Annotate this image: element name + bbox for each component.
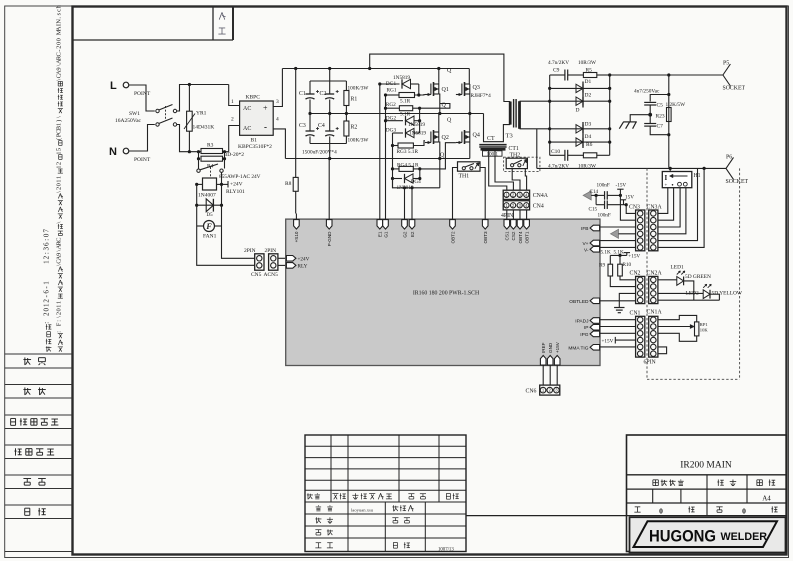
svg-text:CN6: CN6 bbox=[526, 388, 537, 394]
svg-text:15V: 15V bbox=[625, 195, 634, 201]
wire RG4 to Q4 gate bbox=[420, 143, 456, 169]
svg-text:CN2A: CN2A bbox=[647, 271, 663, 277]
svg-text:D: D bbox=[576, 108, 580, 114]
svg-text:IR160 180 200 PWR-1.SCH: IR160 180 200 PWR-1.SCH bbox=[413, 291, 480, 297]
connector CN4 bbox=[503, 201, 529, 210]
svg-text:CN4: CN4 bbox=[533, 204, 544, 210]
diode DG4 bbox=[393, 178, 403, 180]
sheet block IR160 180 200 PWR-1.SCH bbox=[286, 219, 600, 365]
revision row 标准化 bbox=[392, 505, 394, 511]
wire primary feed top bbox=[370, 54, 511, 101]
svg-text:5D GREEN: 5D GREEN bbox=[685, 274, 711, 280]
connector CN4A bbox=[503, 190, 529, 199]
svg-text:+15V: +15V bbox=[602, 338, 614, 344]
socket P6 bbox=[726, 157, 734, 168]
svg-text:T3: T3 bbox=[506, 133, 513, 140]
svg-text:\: \ bbox=[55, 191, 62, 193]
wire MMA TIG to CN1 pin5 bbox=[600, 346, 636, 348]
svg-text::: : bbox=[43, 252, 51, 254]
wire E2 drop bbox=[411, 188, 413, 214]
wire P-GND drop bbox=[328, 159, 330, 214]
svg-text:KBPC: KBPC bbox=[246, 95, 261, 101]
svg-text:OBT4: OBT4 bbox=[518, 231, 523, 243]
wire LED return CN2A pin4 bbox=[658, 299, 719, 301]
left strip label 签字 bbox=[23, 478, 31, 480]
wire FAN to CN5 bbox=[197, 226, 255, 265]
svg-text:LED1: LED1 bbox=[671, 265, 684, 271]
svg-text:RG3 5.1R: RG3 5.1R bbox=[397, 149, 419, 155]
svg-text:2: 2 bbox=[43, 299, 51, 303]
svg-text:RLY101: RLY101 bbox=[226, 189, 245, 195]
svg-text:+15V: +15V bbox=[555, 341, 560, 353]
revision row 审定 bbox=[392, 517, 398, 519]
svg-text:FAN1: FAN1 bbox=[203, 234, 217, 240]
svg-text:2: 2 bbox=[43, 312, 51, 316]
title cell 图幅 bbox=[757, 479, 762, 481]
svg-text:CN1: CN1 bbox=[630, 310, 641, 316]
svg-text:MMA TIG: MMA TIG bbox=[568, 345, 588, 351]
svg-text:+: + bbox=[665, 184, 668, 189]
svg-text:D5: D5 bbox=[207, 213, 214, 218]
logo box bbox=[630, 517, 786, 552]
svg-text:100nF: 100nF bbox=[598, 213, 611, 219]
resistor R9 bbox=[609, 255, 611, 264]
revision header 更改文件号 bbox=[354, 493, 356, 499]
svg-text:AC: AC bbox=[243, 126, 251, 132]
capacitor C4 bbox=[329, 114, 331, 132]
svg-text:Q: Q bbox=[447, 68, 452, 74]
svg-text:G2: G2 bbox=[402, 231, 407, 238]
svg-text:1: 1 bbox=[43, 260, 51, 264]
svg-text:ACN5: ACN5 bbox=[264, 272, 279, 278]
revision upper column lines bbox=[330, 435, 332, 502]
svg-text:9: 9 bbox=[55, 67, 62, 70]
svg-text:RJHF7*4: RJHF7*4 bbox=[471, 93, 492, 99]
svg-text:C: C bbox=[55, 52, 62, 56]
transistor Q4 bbox=[469, 114, 471, 133]
svg-text:D3: D3 bbox=[585, 122, 592, 128]
svg-text:C10: C10 bbox=[551, 149, 560, 155]
svg-text:1N5819: 1N5819 bbox=[408, 122, 425, 128]
svg-text:OBT1: OBT1 bbox=[524, 231, 529, 243]
svg-text:SW1: SW1 bbox=[129, 111, 140, 117]
svg-text:G1: G1 bbox=[383, 231, 388, 238]
svg-text:RP1: RP1 bbox=[700, 322, 709, 327]
svg-text:4n7/250Vac: 4n7/250Vac bbox=[634, 89, 660, 95]
svg-text:9: 9 bbox=[55, 253, 62, 256]
title block outer bbox=[627, 435, 787, 552]
svg-text:I: I bbox=[665, 174, 668, 182]
svg-text:Q: Q bbox=[440, 153, 445, 159]
connector CN6 bbox=[542, 365, 544, 385]
svg-text:6PIN: 6PIN bbox=[644, 360, 657, 366]
svg-text:4: 4 bbox=[276, 117, 279, 123]
svg-text:1N5819: 1N5819 bbox=[409, 131, 426, 137]
svg-text:6: 6 bbox=[43, 242, 51, 246]
capacitor C2 bbox=[329, 81, 331, 94]
varistor YR1 bbox=[188, 83, 191, 86]
svg-text:IFB: IFB bbox=[581, 226, 588, 232]
wire SW1 pole1 to top rail bbox=[177, 85, 229, 112]
revision lower row lines bbox=[305, 513, 466, 515]
svg-text:2PIN: 2PIN bbox=[265, 248, 277, 254]
svg-text:R2: R2 bbox=[351, 125, 358, 131]
svg-text:10K: 10K bbox=[700, 328, 709, 333]
wire IPG to CN1 pin3 bbox=[600, 332, 636, 334]
svg-text:R8: R8 bbox=[285, 181, 292, 187]
svg-text:TH2: TH2 bbox=[510, 152, 521, 158]
svg-text:Q1: Q1 bbox=[442, 87, 449, 93]
wire 15V to CN3 pin2 bbox=[619, 195, 621, 199]
meter H1 bbox=[662, 172, 692, 188]
wire V+ to CN3 pin5 bbox=[600, 240, 636, 242]
svg-text:-15V: -15V bbox=[616, 182, 627, 188]
svg-text:C14: C14 bbox=[590, 189, 599, 195]
svg-text:6: 6 bbox=[43, 290, 51, 294]
wire TH2 to CN4A pin4 bbox=[525, 169, 526, 190]
svg-text:P5: P5 bbox=[723, 61, 729, 67]
relay contact RLY101 bbox=[197, 157, 200, 160]
svg-text:1500uF/200V*4: 1500uF/200V*4 bbox=[302, 150, 337, 156]
socket P5 bbox=[723, 64, 731, 75]
title cell 版本 bbox=[717, 479, 719, 485]
wire bridge pin3 to +bus bbox=[273, 69, 282, 107]
svg-text:1007/13: 1007/13 bbox=[438, 548, 454, 553]
svg-text:CN2: CN2 bbox=[630, 271, 641, 277]
resistor R4 bbox=[197, 150, 200, 153]
title cell 共0张 bbox=[635, 506, 641, 508]
bottom middle divider bbox=[466, 515, 627, 517]
svg-text:R10: R10 bbox=[623, 262, 632, 268]
svg-text::: : bbox=[55, 320, 62, 322]
svg-text:D2: D2 bbox=[585, 93, 592, 99]
wire IP to CN1 pin2 bbox=[600, 326, 636, 328]
svg-text:P-GND: P-GND bbox=[327, 231, 332, 246]
block top ports bbox=[295, 214, 297, 220]
wire gate bus E1 bbox=[379, 84, 381, 214]
wire cap bottom rail bbox=[310, 143, 346, 145]
svg-text:\: \ bbox=[55, 222, 62, 224]
wires CN3A to H1 bbox=[658, 188, 668, 214]
svg-text:IPADJ: IPADJ bbox=[575, 319, 589, 325]
svg-text:C2: C2 bbox=[320, 91, 327, 97]
svg-text:100K/3W: 100K/3W bbox=[348, 138, 369, 144]
svg-text:1.2K/5W: 1.2K/5W bbox=[666, 102, 686, 108]
svg-text:C7: C7 bbox=[657, 123, 664, 129]
resistor R8 bbox=[295, 69, 297, 178]
svg-text:L: L bbox=[110, 80, 117, 92]
flag 15V upper bbox=[619, 189, 621, 195]
svg-text:(: ( bbox=[55, 138, 62, 140]
svg-text:R6: R6 bbox=[586, 142, 593, 148]
svg-text:F: F bbox=[205, 222, 212, 231]
svg-text:V-: V- bbox=[584, 247, 589, 253]
wire SW1 pole2 to bottom rail bbox=[177, 125, 196, 152]
svg-text:laoyuan.xsu: laoyuan.xsu bbox=[351, 508, 374, 513]
svg-text:SOCKET: SOCKET bbox=[726, 179, 749, 185]
capacitor C15 bbox=[595, 195, 597, 204]
revision row 设计 bbox=[317, 505, 319, 506]
svg-text:IPG: IPG bbox=[580, 332, 589, 338]
svg-text:3: 3 bbox=[43, 246, 51, 250]
resistor R10 bbox=[619, 255, 621, 264]
svg-text:C1: C1 bbox=[299, 91, 306, 97]
transformer T3 bbox=[509, 102, 512, 125]
wire ACN5 to block bbox=[278, 257, 287, 259]
wire G2 drop bbox=[404, 188, 406, 214]
svg-text:5D YELLOW: 5D YELLOW bbox=[712, 291, 743, 297]
svg-text::: : bbox=[43, 239, 51, 241]
wire rail to H1 bbox=[669, 168, 671, 171]
wire IPADJ to CN1 pin1 bbox=[600, 319, 636, 321]
svg-text:Q2: Q2 bbox=[442, 135, 449, 141]
svg-text:14D431K: 14D431K bbox=[193, 125, 215, 131]
wire gate return bottom bbox=[393, 179, 440, 188]
svg-text:A4: A4 bbox=[762, 495, 771, 503]
wire rect left vertical bbox=[549, 75, 551, 155]
wire - output rail to P6 bbox=[537, 167, 726, 169]
svg-text:B1: B1 bbox=[251, 138, 258, 144]
svg-text:D1: D1 bbox=[585, 79, 592, 85]
resistor R1 bbox=[345, 81, 347, 91]
svg-text:Q3: Q3 bbox=[473, 85, 480, 91]
wire D1 row bbox=[550, 87, 610, 89]
svg-text:0: 0 bbox=[43, 307, 51, 311]
dashed panel box bbox=[646, 168, 648, 379]
gnd triangle to CN3 pin4 bbox=[611, 229, 619, 238]
svg-text:F: F bbox=[55, 322, 62, 326]
wires CN3A to rail bbox=[658, 168, 698, 240]
thermostat TH1 bbox=[458, 162, 481, 171]
svg-text::: : bbox=[43, 322, 51, 324]
wire R9 to CN2 pin2 bbox=[610, 276, 635, 287]
wire CT secondary to CN4A pin1 bbox=[489, 149, 507, 190]
left strip label 底图总号 bbox=[14, 448, 16, 455]
svg-text:C9: C9 bbox=[553, 68, 560, 74]
revision header 日期 bbox=[446, 492, 450, 494]
svg-text:-: - bbox=[55, 50, 62, 52]
svg-text:+15V: +15V bbox=[628, 253, 640, 259]
flag 15V lower bbox=[623, 200, 625, 205]
svg-text:POINT: POINT bbox=[134, 157, 151, 163]
wire CN1A jumper bbox=[658, 347, 667, 354]
svg-text:C5: C5 bbox=[657, 102, 664, 108]
revision header 标记 bbox=[307, 493, 309, 499]
svg-text:16A250Vac: 16A250Vac bbox=[115, 118, 142, 124]
left strip label 描校 bbox=[24, 387, 26, 395]
resistor R2 bbox=[345, 114, 347, 122]
capacitor C5 bbox=[644, 101, 656, 103]
top cell glyphs bbox=[219, 12, 222, 19]
svg-text:CN4A: CN4A bbox=[533, 193, 549, 199]
svg-text:R23: R23 bbox=[656, 113, 665, 119]
logo HUGONG WELDER bbox=[634, 521, 778, 547]
svg-text:7: 7 bbox=[43, 229, 51, 233]
svg-text:+24V: +24V bbox=[230, 182, 243, 188]
chassis ground bbox=[630, 115, 650, 122]
svg-text:TH1: TH1 bbox=[459, 174, 470, 180]
transistor Q3 bbox=[468, 69, 470, 85]
wire L to SW1 bbox=[129, 85, 155, 111]
svg-text:D4: D4 bbox=[585, 134, 592, 140]
wire D3 row bbox=[550, 128, 610, 130]
dashed box TH2 bbox=[504, 157, 540, 171]
wire gnd to CN2 pin3 bbox=[619, 293, 635, 307]
svg-text:C: C bbox=[55, 238, 62, 242]
svg-text:100nF: 100nF bbox=[597, 182, 610, 188]
svg-text:SOCKET: SOCKET bbox=[723, 86, 746, 92]
block right ports bbox=[590, 225, 600, 231]
wire Q2 source to gate return bbox=[439, 159, 441, 188]
wire gate bus G2 upper bbox=[392, 133, 394, 188]
wire TH1 to OBT3 bbox=[480, 168, 485, 214]
revision row 工艺 bbox=[316, 542, 321, 544]
resistor R3 bbox=[196, 151, 201, 153]
wire D2 row bbox=[550, 100, 610, 102]
svg-text:2: 2 bbox=[43, 255, 51, 259]
wire N to SW1 bbox=[129, 125, 155, 152]
svg-text:E2: E2 bbox=[410, 231, 415, 237]
svg-text:1: 1 bbox=[43, 303, 51, 307]
block bottom ports IREF GND +15V bbox=[540, 356, 546, 366]
svg-text:3D-20*2: 3D-20*2 bbox=[225, 152, 245, 158]
left strip row lines bbox=[5, 353, 73, 355]
svg-text:IREF: IREF bbox=[541, 342, 546, 353]
svg-text:0: 0 bbox=[742, 507, 746, 516]
wire +bus bbox=[282, 68, 469, 70]
svg-text:R9: R9 bbox=[599, 263, 605, 269]
svg-text:R1: R1 bbox=[351, 97, 358, 103]
wire T3 secondary bottom to rectifier bbox=[520, 128, 550, 130]
svg-text:1N4007: 1N4007 bbox=[198, 193, 216, 199]
svg-text:YR1: YR1 bbox=[196, 111, 207, 117]
svg-text:CS1: CS1 bbox=[505, 231, 510, 240]
svg-text:RG4 5.1R: RG4 5.1R bbox=[397, 162, 419, 168]
wire T3 secondary top to rectifier bbox=[520, 100, 550, 102]
revision row 审核 bbox=[315, 529, 321, 531]
left strip vertical text 文件名 bbox=[58, 346, 63, 348]
svg-text:RG1: RG1 bbox=[387, 88, 397, 94]
svg-text:100K/3W: 100K/3W bbox=[348, 86, 369, 92]
revision table blank row lines bbox=[305, 445, 466, 447]
resistor RG3 bbox=[393, 145, 399, 147]
svg-text:C15: C15 bbox=[589, 207, 598, 213]
fan FAN1 bbox=[196, 205, 198, 226]
block left ports +24V RLY bbox=[286, 256, 296, 262]
svg-text:R3: R3 bbox=[207, 143, 214, 149]
wire bridge pin4 to -bus bbox=[273, 129, 285, 159]
svg-text:855AWP-1AC 24V: 855AWP-1AC 24V bbox=[219, 174, 261, 180]
svg-text:N: N bbox=[109, 146, 117, 158]
wire IFB to CN3 pin3 bbox=[600, 226, 636, 228]
title block column lines bbox=[706, 475, 708, 516]
revision row 日期2 bbox=[393, 541, 397, 543]
capacitor C7 bbox=[644, 123, 656, 125]
wire R34 to bridge pin2 bbox=[229, 126, 240, 152]
svg-text:Q4: Q4 bbox=[473, 133, 480, 139]
svg-text:1: 1 bbox=[55, 123, 62, 126]
svg-text:V+: V+ bbox=[582, 241, 588, 247]
svg-text:\: \ bbox=[55, 316, 62, 318]
title cell 第0张 bbox=[716, 506, 722, 508]
wire OBTLED to CN2 pin4 bbox=[600, 300, 636, 302]
wires CN4 to block pins bbox=[506, 210, 508, 214]
wire V- to CN3 pin6 bbox=[600, 246, 636, 248]
top-left frame cells bbox=[73, 39, 234, 41]
wire D4 row bbox=[550, 141, 610, 143]
svg-text:IP: IP bbox=[584, 325, 589, 331]
wire T3 primary bottom to CT bbox=[484, 114, 511, 142]
svg-text:AC: AC bbox=[243, 106, 251, 112]
svg-text:CN1A: CN1A bbox=[647, 310, 663, 316]
svg-text:\: \ bbox=[55, 116, 62, 118]
svg-text:4PIN: 4PIN bbox=[501, 213, 514, 219]
svg-text:4.7n/2KV: 4.7n/2KV bbox=[548, 60, 569, 66]
svg-text:+24V: +24V bbox=[298, 256, 310, 262]
svg-text:CS2: CS2 bbox=[511, 231, 516, 240]
svg-text:E1: E1 bbox=[378, 231, 383, 237]
left strip vertical text 打印日期 bbox=[46, 346, 48, 352]
left strip label 日期 bbox=[25, 507, 30, 509]
title block row lines bbox=[627, 474, 787, 476]
wire gate bus G1 bbox=[385, 95, 387, 214]
svg-text:OBT2: OBT2 bbox=[450, 231, 455, 243]
bridge rectifier B1 bbox=[240, 101, 274, 135]
wire + output rail to P5 bbox=[610, 74, 723, 76]
revision lower column lines bbox=[347, 502, 349, 552]
transistor Q2 bbox=[438, 114, 440, 133]
svg-text:0: 0 bbox=[43, 233, 51, 237]
svg-text:C3: C3 bbox=[299, 123, 306, 129]
svg-text:KBPC3510F*2: KBPC3510F*2 bbox=[238, 144, 272, 150]
svg-text:OBTLED: OBTLED bbox=[569, 299, 589, 305]
revision header 签字 bbox=[408, 493, 414, 495]
svg-text:RG2: RG2 bbox=[386, 102, 396, 108]
svg-text:C4: C4 bbox=[318, 123, 325, 129]
svg-text:-: - bbox=[264, 122, 267, 132]
svg-text:1: 1 bbox=[43, 281, 51, 285]
svg-text:WELDER: WELDER bbox=[721, 531, 768, 543]
revision row 校对 bbox=[315, 517, 317, 523]
svg-text:5.1K: 5.1K bbox=[601, 250, 611, 256]
svg-text:CT1: CT1 bbox=[509, 146, 519, 152]
svg-text:2PIN: 2PIN bbox=[244, 248, 256, 254]
wire TH2 to CN4A pin3 bbox=[512, 169, 520, 190]
wire TH1 to OBT2 bbox=[453, 168, 458, 214]
diode D5 bbox=[196, 184, 198, 205]
relay coil RLY101 bbox=[221, 172, 223, 184]
transistor Q1 bbox=[438, 69, 440, 83]
svg-text:1: 1 bbox=[55, 301, 62, 304]
svg-text:GND: GND bbox=[548, 342, 553, 353]
revision table outer bbox=[305, 435, 466, 552]
wire C15 to CN3 pin1 bbox=[626, 205, 635, 214]
wire secondary bottom to -rail bbox=[536, 129, 538, 169]
svg-text:IR200 MAIN: IR200 MAIN bbox=[680, 461, 732, 471]
svg-text:): ) bbox=[55, 120, 62, 122]
wire CT secondary to CN4A pin2 bbox=[495, 149, 513, 190]
capacitor C1 bbox=[329, 69, 331, 82]
svg-text:P6: P6 bbox=[726, 155, 732, 161]
svg-text:1: 1 bbox=[55, 176, 62, 179]
switch SW1 bbox=[156, 109, 159, 112]
svg-text:Q: Q bbox=[447, 118, 452, 124]
svg-text:RLY: RLY bbox=[298, 264, 308, 270]
svg-text:10R/3W: 10R/3W bbox=[578, 60, 596, 66]
wire rect right vertical bbox=[609, 75, 611, 155]
earth ground bbox=[614, 307, 624, 309]
svg-text:HUGONG: HUGONG bbox=[649, 527, 716, 546]
